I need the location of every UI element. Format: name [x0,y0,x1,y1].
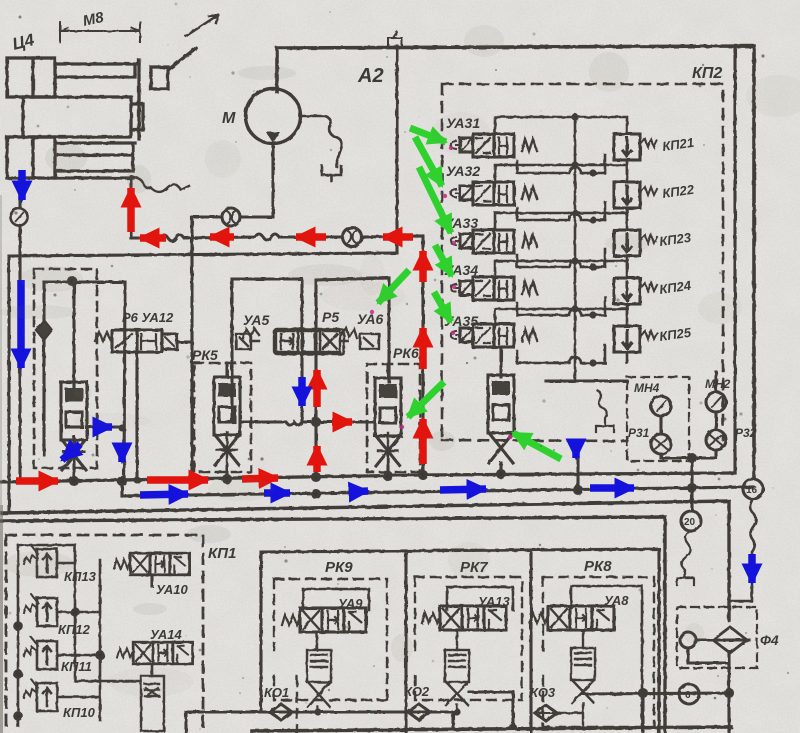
svg-text:КП11: КП11 [61,659,92,674]
svg-text:РК9: РК9 [325,559,353,576]
svg-text:МН2: МН2 [705,377,731,391]
svg-text:Р6 УА12: Р6 УА12 [122,310,174,325]
svg-text:16: 16 [746,485,758,496]
svg-text:А2: А2 [357,65,384,87]
svg-text:УА14: УА14 [150,627,182,642]
svg-text:РК6: РК6 [393,345,419,361]
svg-text:М: М [222,110,236,127]
svg-text:УА8: УА8 [604,593,629,608]
svg-text:20: 20 [684,517,696,528]
svg-text:УА13: УА13 [478,594,510,609]
svg-text:Р5: Р5 [322,309,339,325]
svg-text:УА10: УА10 [156,582,188,597]
svg-text:РК5: РК5 [192,347,218,363]
svg-text:КП13: КП13 [64,569,97,584]
svg-text:КО1: КО1 [264,685,289,700]
svg-text:КО2: КО2 [404,684,430,699]
svg-text:УА32: УА32 [446,163,480,179]
svg-text:КП12: КП12 [58,622,91,637]
svg-text:РК8: РК8 [584,558,612,575]
svg-text:УА9: УА9 [338,596,363,611]
svg-text:КП2: КП2 [692,65,722,82]
svg-text:6: 6 [685,690,691,701]
svg-text:Р31: Р31 [628,426,650,440]
svg-text:Ф4: Ф4 [760,632,779,648]
svg-text:УА6: УА6 [357,311,384,327]
svg-text:КО3: КО3 [530,685,556,700]
svg-text:КП1: КП1 [208,545,236,562]
svg-text:МН4: МН4 [634,381,660,395]
svg-text:КП10: КП10 [63,705,96,720]
svg-text:УА5: УА5 [243,312,270,328]
svg-text:Р32: Р32 [735,426,757,440]
